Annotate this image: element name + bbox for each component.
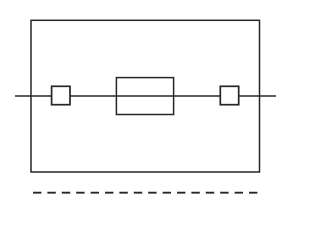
wire (through conductor) (15, 95, 276, 97)
terminal clamp right (220, 86, 238, 104)
fuse F1 (middle rectangle) (116, 78, 173, 115)
dashed separator line (33, 192, 257, 194)
terminal clamp left (52, 86, 70, 104)
component body outline (terminal block) (31, 20, 260, 172)
